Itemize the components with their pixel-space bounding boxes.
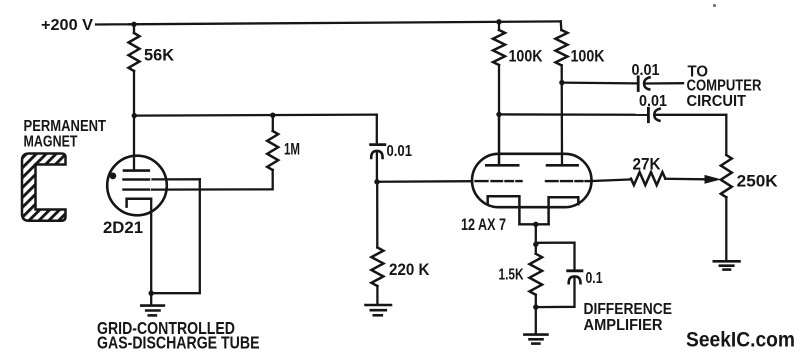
svg-text:27K: 27K xyxy=(633,156,661,174)
svg-text:250K: 250K xyxy=(737,172,779,191)
wire: 56K bottom to 2D21 plate xyxy=(133,71,135,170)
resistor R2 1M xyxy=(272,115,274,131)
magnet: permanent magnet C-core with hatching xyxy=(22,154,66,221)
capacitor C3 0.01 lower output coupling xyxy=(499,113,647,116)
wire: 1M bottom down and left to 2D21 grid xyxy=(152,170,273,190)
svg-text:CIRCUIT: CIRCUIT xyxy=(687,93,747,110)
capacitor C2 0.01 upper output coupling xyxy=(562,81,637,84)
resistor R7 27K xyxy=(631,172,665,185)
ground: 220K ground xyxy=(366,305,392,315)
resistor R4 100K left xyxy=(498,22,500,30)
resistor R5 100K right xyxy=(560,21,563,30)
node: left 100K / cap2 junction xyxy=(496,112,501,117)
capacitor C4 0.1 cathode bypass xyxy=(536,243,575,269)
node: cathode / 1.5K / 0.1 junction xyxy=(533,242,538,247)
resistor R3 220K xyxy=(376,182,378,248)
svg-text:0.01: 0.01 xyxy=(632,62,660,79)
potentiometer R8 250K xyxy=(725,115,727,155)
ground: cathode network ground xyxy=(524,335,547,344)
wire: 2D21 cathode lead down xyxy=(150,199,152,294)
svg-text:DIFFERENCE: DIFFERENCE xyxy=(584,301,673,318)
ground: potentiometer ground xyxy=(714,261,740,269)
svg-text:0.1: 0.1 xyxy=(586,270,603,287)
wire: +200V top supply rail xyxy=(96,21,561,24)
svg-text:MAGNET: MAGNET xyxy=(24,133,78,150)
svg-text:2D21: 2D21 xyxy=(103,218,143,237)
wiper arrow of potentiometer xyxy=(705,175,722,184)
12AX7 right cathode xyxy=(549,197,579,224)
wire: horizontal bus from 56K node to 0.01 cap xyxy=(134,115,376,116)
wire: rail to 56K top xyxy=(133,24,135,33)
node: cathode junction xyxy=(533,222,538,227)
svg-text:100K: 100K xyxy=(571,47,605,65)
wire: 27K to wiper arrow xyxy=(665,178,705,181)
tube V2 12AX7 envelope xyxy=(472,154,592,207)
wire: 12AX7 grid to 27K xyxy=(592,179,632,181)
svg-text:+200 V: +200 V xyxy=(41,17,93,34)
node: cathode/grid return junction xyxy=(149,291,154,296)
svg-text:100K: 100K xyxy=(509,47,543,65)
wire: 2D21 grid 1 to shield return xyxy=(153,178,200,180)
2D21 grid 2 dash xyxy=(124,188,150,190)
node: junction bus / 1M top xyxy=(270,113,275,118)
wire: grid return right side down xyxy=(151,179,200,293)
wire: to ground xyxy=(535,307,537,334)
svg-text:AMPLIFIER: AMPLIFIER xyxy=(584,317,663,334)
2D21 plate xyxy=(124,169,149,172)
2D21 cathode xyxy=(127,199,151,207)
12AX7 grid dashes xyxy=(476,180,592,182)
resistor R6 1.5K xyxy=(535,244,537,253)
2D21 gas dot xyxy=(110,173,117,180)
node: junction of rail and left 100K xyxy=(496,19,501,24)
12AX7 right plate xyxy=(547,164,578,167)
svg-text:56K: 56K xyxy=(144,45,175,64)
tube V1 2D21 envelope xyxy=(107,156,167,216)
wire: junction to ground xyxy=(150,293,152,304)
wire: cathode down lead xyxy=(535,224,537,244)
wire: cathode tie bar xyxy=(519,223,548,225)
svg-text:12 AX 7: 12 AX 7 xyxy=(461,216,506,234)
svg-text:SeekIC.com: SeekIC.com xyxy=(686,327,795,351)
2D21 grid 1 dash xyxy=(124,178,150,180)
12AX7 left cathode xyxy=(488,196,520,224)
svg-text:0.01: 0.01 xyxy=(387,143,413,160)
svg-text:GAS-DISCHARGE TUBE: GAS-DISCHARGE TUBE xyxy=(97,333,260,353)
node: junction 56K line / horizontal bus xyxy=(132,113,137,118)
node: C1 / 220K / 12AX7 grid junction xyxy=(374,179,379,184)
node: right 100K / cap1 junction xyxy=(559,80,564,85)
svg-text:220 K: 220 K xyxy=(389,261,430,279)
capacitor C1 0.01 (grid coupling) xyxy=(376,115,378,143)
node: junction of rail and 56K xyxy=(131,22,136,27)
svg-text:1M: 1M xyxy=(284,139,300,158)
svg-text:0.01: 0.01 xyxy=(639,93,667,110)
scan speck xyxy=(713,4,716,7)
node: 1.5K / 0.1 bottom junction xyxy=(533,304,538,309)
svg-text:1.5K: 1.5K xyxy=(499,267,524,284)
wire: junction to 12AX7 grid xyxy=(377,180,472,183)
12AX7 left plate xyxy=(498,114,500,165)
ground: 2D21 cathode ground xyxy=(141,306,164,316)
resistor R1 56K xyxy=(129,33,140,71)
